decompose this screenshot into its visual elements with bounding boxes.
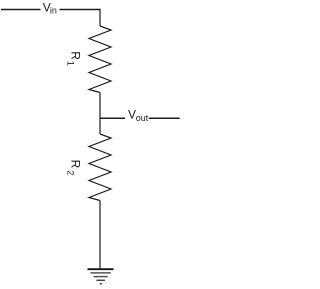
wire Vin left segment: [1, 9, 41, 11]
resistor R1: [89, 26, 111, 93]
svg-text:in: in: [50, 5, 57, 15]
svg-text:out: out: [136, 113, 149, 123]
wire Vout branch: [100, 117, 126, 119]
wire Vin right segment to corner: [60, 9, 101, 11]
wire top vertical lead: [99, 9, 101, 26]
wire Vout right segment: [149, 117, 180, 119]
ground: [88, 269, 114, 284]
resistor R2: [89, 134, 111, 201]
wire R2 to ground: [99, 201, 101, 270]
svg-text:R2: R2: [66, 160, 83, 176]
svg-text:R1: R1: [66, 51, 83, 65]
wire R1 to node: [99, 93, 101, 135]
